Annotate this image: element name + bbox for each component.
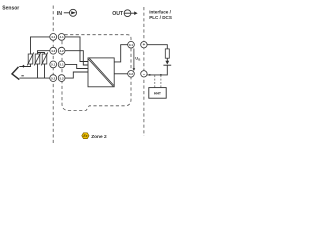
terminal 3.2 xyxy=(128,71,135,78)
terminal 5.2 pair xyxy=(50,75,65,82)
load resistor xyxy=(165,49,169,58)
dashed lead HHT left xyxy=(154,75,156,87)
svg-text:4.2: 4.2 xyxy=(51,49,56,53)
wire RL3 lower lead xyxy=(44,64,46,78)
wire plus to load xyxy=(147,45,167,49)
wire resistor to diode xyxy=(166,58,168,61)
diode D1 xyxy=(163,61,171,65)
wire 4.2 to isolator xyxy=(65,51,88,65)
IN symbol xyxy=(57,9,77,17)
svg-text:+: + xyxy=(143,42,146,47)
OUT symbol xyxy=(112,10,137,17)
svg-text:Ex: Ex xyxy=(83,134,87,138)
wire 4.1 to isolator xyxy=(65,37,88,62)
wire isolator to 3.2 xyxy=(114,73,128,75)
wire 5.1 to isolator xyxy=(65,64,88,68)
terminal 4.1 pair xyxy=(50,34,65,41)
wire diode to minus xyxy=(147,65,167,75)
resistor RL2 xyxy=(34,52,41,65)
svg-text:4.1: 4.1 xyxy=(60,35,65,39)
svg-text:Zone 2: Zone 2 xyxy=(91,134,107,140)
wire sensor minus to 5.2 xyxy=(20,77,50,79)
node plus xyxy=(141,42,147,48)
HHT box xyxy=(149,88,166,99)
wire isolator to 3.1 xyxy=(114,45,128,62)
junction dot A xyxy=(149,74,151,76)
terminal 5.1 pair xyxy=(50,61,65,68)
terminal 3.1 xyxy=(128,41,135,48)
svg-text:5.2: 5.2 xyxy=(51,76,56,80)
zone boundary dashed line left (Sensor | IN) xyxy=(52,6,54,144)
label Interface / PLC / DCS xyxy=(149,10,172,20)
svg-text:3.2: 3.2 xyxy=(129,72,134,76)
resistor RL1 xyxy=(27,52,34,65)
svg-text:Sensor: Sensor xyxy=(2,6,19,12)
thermocouple sensor xyxy=(12,65,25,80)
dashed lead HHT right xyxy=(160,75,162,87)
Ub supply voltage arrow xyxy=(133,49,141,72)
wire jog to RL3 xyxy=(38,53,45,55)
terminal 4.2 pair xyxy=(50,47,65,54)
svg-text:HHT: HHT xyxy=(154,91,162,95)
zone boundary dashed line right (OUT | Interface) xyxy=(143,7,145,136)
junction dot B xyxy=(160,74,162,76)
wire 5.2 to isolator xyxy=(65,72,88,78)
svg-text:OUT: OUT xyxy=(112,11,124,17)
wire RL1 to sensor plus xyxy=(19,64,30,67)
device dashed outline xyxy=(62,35,131,111)
Ex zone symbol xyxy=(82,133,89,139)
node minus xyxy=(141,71,147,78)
svg-text:5.2: 5.2 xyxy=(60,76,65,80)
svg-text:IN: IN xyxy=(57,11,62,17)
svg-text:4.2: 4.2 xyxy=(60,49,65,53)
svg-text:PLC / DCS: PLC / DCS xyxy=(149,15,172,20)
svg-text:Interface /: Interface / xyxy=(149,10,171,15)
resistor RL3 xyxy=(41,52,48,65)
isolator block U1 xyxy=(88,58,114,87)
wire RL2 lower lead xyxy=(37,64,39,78)
wire 4.1 to RL1 xyxy=(31,37,50,54)
svg-text:4.1: 4.1 xyxy=(51,35,56,39)
svg-text:3.1: 3.1 xyxy=(129,43,134,47)
wire 4.2 to RL2 xyxy=(38,51,50,54)
svg-text:5.1: 5.1 xyxy=(51,63,56,67)
svg-text:B: B xyxy=(138,58,140,62)
svg-text:5.1: 5.1 xyxy=(60,63,65,67)
